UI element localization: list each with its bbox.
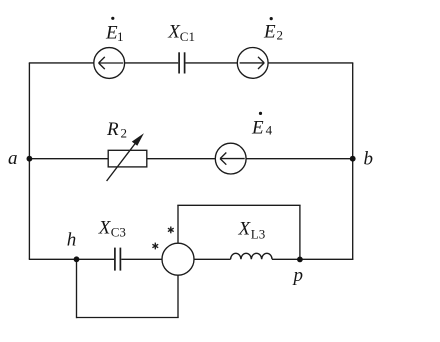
- wire sub-loop bottom: [77, 317, 179, 319]
- wire top rail right segment: [268, 62, 353, 64]
- resistor R2 body: [108, 150, 147, 167]
- wire bottom rail left segment through h: [29, 258, 114, 260]
- inductor L3 coil: [231, 253, 272, 259]
- source E4 arrow: [220, 153, 245, 165]
- wire middle rail a to R2: [29, 158, 108, 160]
- label E2: [263, 17, 283, 43]
- svg-text:h: h: [67, 229, 77, 250]
- wire inner loop top: [177, 204, 300, 206]
- svg-text:2: 2: [121, 126, 128, 141]
- node a: [27, 156, 33, 162]
- source E4 circle: [215, 143, 246, 174]
- label X_C3: [98, 218, 126, 240]
- wire coil to p to right corner: [272, 258, 353, 260]
- source E1 arrow: [99, 57, 124, 69]
- svg-text:2: 2: [277, 28, 284, 43]
- resistor R2 adjustment arrow: [107, 133, 144, 181]
- wire wattmeter to coil: [194, 258, 231, 260]
- wire top rail left segment: [29, 62, 94, 64]
- svg-text:b: b: [364, 148, 374, 169]
- wire top rail E1 to C1: [125, 62, 179, 64]
- wire wattmeter top branch: [177, 205, 179, 243]
- wire right vertical b-branch: [352, 63, 354, 260]
- svg-text:L3: L3: [251, 226, 265, 241]
- asterisk marker near wattmeter left terminal: [152, 243, 158, 250]
- svg-text:E: E: [263, 22, 276, 43]
- label E1: [105, 17, 124, 45]
- wattmeter circle: [162, 243, 194, 275]
- wire left vertical a-branch: [28, 63, 30, 259]
- svg-text:4: 4: [266, 122, 273, 137]
- svg-text:C3: C3: [111, 224, 126, 239]
- svg-text:a: a: [8, 148, 18, 169]
- node b: [350, 156, 356, 162]
- capacitor C1 plates: [179, 52, 185, 73]
- wire wattmeter bottom branch: [177, 275, 179, 317]
- label R2: [106, 119, 127, 141]
- svg-text:p: p: [292, 265, 304, 286]
- wire inner loop right down to p: [299, 205, 301, 259]
- wire middle rail E4 to b: [246, 158, 353, 160]
- node h: [74, 256, 80, 262]
- wire top rail C1 to E2: [186, 62, 238, 64]
- source E1 circle: [94, 48, 125, 79]
- svg-text:X: X: [98, 218, 112, 239]
- label E4: [251, 112, 273, 139]
- label X_L3: [238, 218, 266, 241]
- source E2 circle: [237, 48, 268, 79]
- wire sub-loop left from h down: [76, 259, 78, 318]
- svg-text:C1: C1: [180, 29, 195, 44]
- wire C3 to wattmeter: [121, 258, 162, 260]
- svg-text:E: E: [251, 117, 264, 138]
- label X_C1: [167, 22, 195, 44]
- svg-text:X: X: [238, 218, 252, 239]
- svg-text:1: 1: [117, 29, 124, 44]
- capacitor C3 plates: [115, 248, 121, 271]
- node p: [297, 257, 303, 263]
- wire middle rail R2 to E4: [147, 158, 216, 160]
- source E2 arrow: [240, 57, 265, 69]
- svg-text:R: R: [106, 119, 119, 140]
- asterisk marker near wattmeter top terminal: [168, 227, 174, 234]
